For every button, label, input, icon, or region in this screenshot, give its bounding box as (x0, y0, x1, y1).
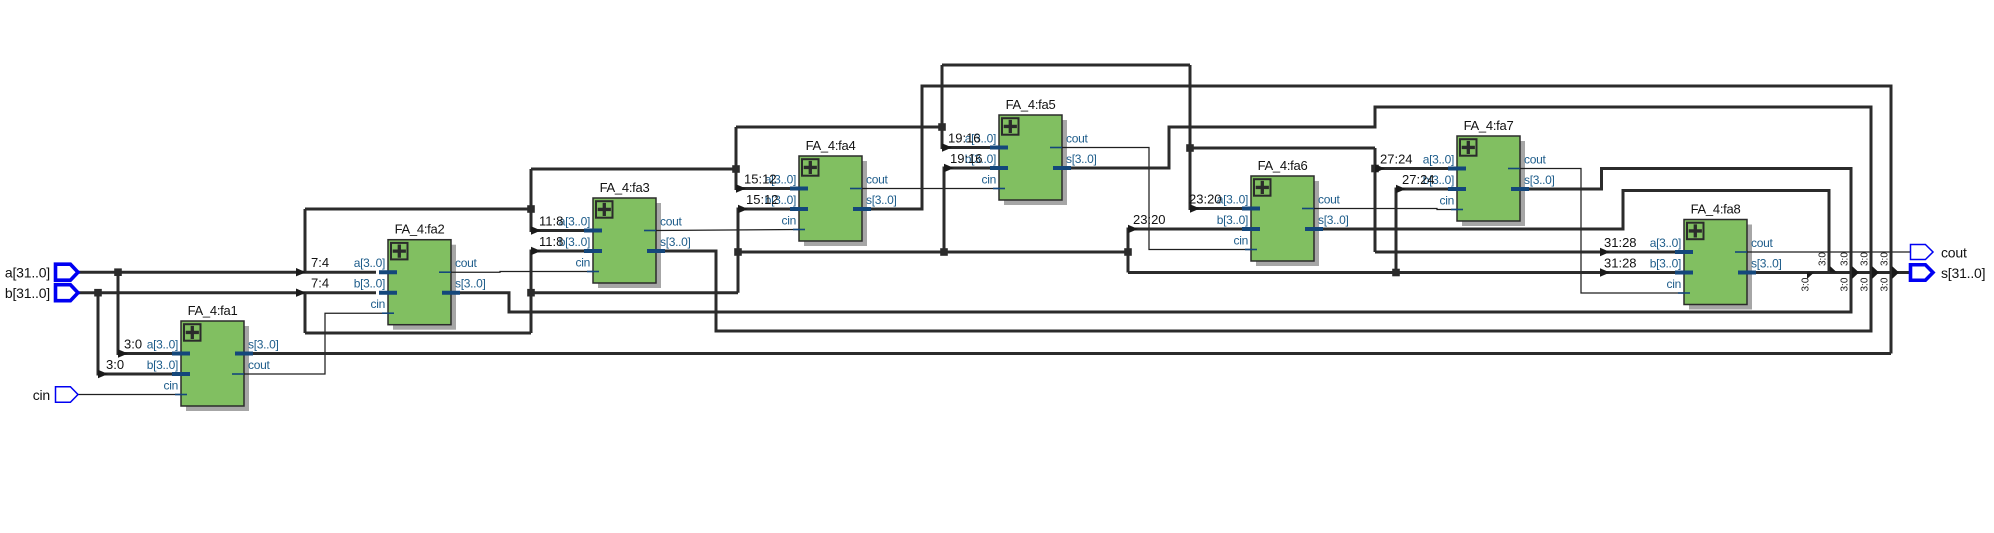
svg-text:cout: cout (1941, 245, 1967, 261)
svg-text:3:0: 3:0 (1818, 252, 1829, 266)
svg-text:31:28: 31:28 (1604, 256, 1637, 271)
svg-text:FA_4:fa8: FA_4:fa8 (1691, 202, 1741, 217)
svg-text:27:24: 27:24 (1402, 172, 1435, 187)
svg-text:s[3..0]: s[3..0] (1524, 173, 1555, 187)
svg-text:FA_4:fa7: FA_4:fa7 (1464, 118, 1514, 133)
svg-text:11:8: 11:8 (539, 214, 563, 229)
svg-text:19:16: 19:16 (950, 151, 983, 166)
svg-text:FA_4:fa4: FA_4:fa4 (806, 138, 856, 153)
svg-text:3:0: 3:0 (1860, 277, 1871, 291)
svg-text:s[3..0]: s[3..0] (1066, 152, 1097, 166)
svg-text:FA_4:fa1: FA_4:fa1 (188, 303, 238, 318)
svg-text:3:0: 3:0 (124, 337, 142, 352)
svg-text:3:0: 3:0 (106, 357, 124, 372)
svg-text:27:24: 27:24 (1380, 152, 1413, 167)
svg-text:15:12: 15:12 (744, 172, 777, 187)
svg-text:23:20: 23:20 (1189, 192, 1222, 207)
svg-text:a[3..0]: a[3..0] (354, 256, 385, 270)
svg-text:cin: cin (982, 173, 996, 187)
svg-text:FA_4:fa2: FA_4:fa2 (395, 222, 445, 237)
svg-text:b[3..0]: b[3..0] (1650, 257, 1681, 271)
svg-text:19:16: 19:16 (948, 131, 981, 146)
svg-text:s[3..0]: s[3..0] (660, 235, 691, 249)
svg-text:b[3..0]: b[3..0] (354, 277, 385, 291)
svg-text:FA_4:fa6: FA_4:fa6 (1258, 158, 1308, 173)
svg-text:s[31..0]: s[31..0] (1941, 265, 1985, 281)
svg-text:23:20: 23:20 (1133, 212, 1166, 227)
svg-text:cout: cout (660, 215, 682, 229)
svg-text:31:28: 31:28 (1604, 235, 1637, 250)
svg-text:b[31..0]: b[31..0] (5, 285, 50, 301)
svg-text:cin: cin (1234, 234, 1248, 248)
svg-text:s[3..0]: s[3..0] (455, 277, 486, 291)
svg-text:s[3..0]: s[3..0] (248, 338, 279, 352)
svg-text:FA_4:fa3: FA_4:fa3 (600, 180, 650, 195)
svg-text:cout: cout (248, 358, 270, 372)
svg-text:cout: cout (1318, 193, 1340, 207)
svg-text:7:4: 7:4 (311, 255, 329, 270)
svg-text:s[3..0]: s[3..0] (1318, 213, 1349, 227)
svg-text:cout: cout (1751, 236, 1773, 250)
svg-text:15:12: 15:12 (746, 192, 779, 207)
svg-text:3:0: 3:0 (1880, 277, 1891, 291)
svg-text:cout: cout (1066, 132, 1088, 146)
svg-text:cin: cin (164, 379, 178, 393)
svg-text:3:0: 3:0 (1840, 277, 1851, 291)
svg-text:s[3..0]: s[3..0] (866, 193, 897, 207)
svg-text:a[3..0]: a[3..0] (1650, 236, 1681, 250)
svg-text:cin: cin (1440, 194, 1454, 208)
svg-text:a[3..0]: a[3..0] (147, 338, 178, 352)
svg-text:3:0: 3:0 (1880, 252, 1891, 266)
svg-text:a[3..0]: a[3..0] (559, 215, 590, 229)
svg-text:cin: cin (371, 297, 385, 311)
svg-text:s[3..0]: s[3..0] (1751, 257, 1782, 271)
svg-text:cin: cin (782, 214, 796, 228)
svg-text:b[3..0]: b[3..0] (1217, 213, 1248, 227)
svg-text:b[3..0]: b[3..0] (559, 235, 590, 249)
svg-text:a[31..0]: a[31..0] (5, 265, 50, 281)
svg-text:7:4: 7:4 (311, 276, 329, 291)
svg-text:b[3..0]: b[3..0] (147, 358, 178, 372)
svg-text:3:0: 3:0 (1860, 252, 1871, 266)
svg-text:3:0: 3:0 (1801, 277, 1812, 291)
svg-text:a[3..0]: a[3..0] (1423, 153, 1454, 167)
svg-text:cout: cout (866, 173, 888, 187)
svg-text:cin: cin (576, 256, 590, 270)
svg-text:cin: cin (33, 387, 50, 403)
svg-text:cout: cout (1524, 153, 1546, 167)
svg-text:cout: cout (455, 256, 477, 270)
svg-text:cin: cin (1667, 277, 1681, 291)
svg-text:11:8: 11:8 (539, 234, 563, 249)
svg-text:FA_4:fa5: FA_4:fa5 (1006, 97, 1056, 112)
svg-text:3:0: 3:0 (1840, 252, 1851, 266)
